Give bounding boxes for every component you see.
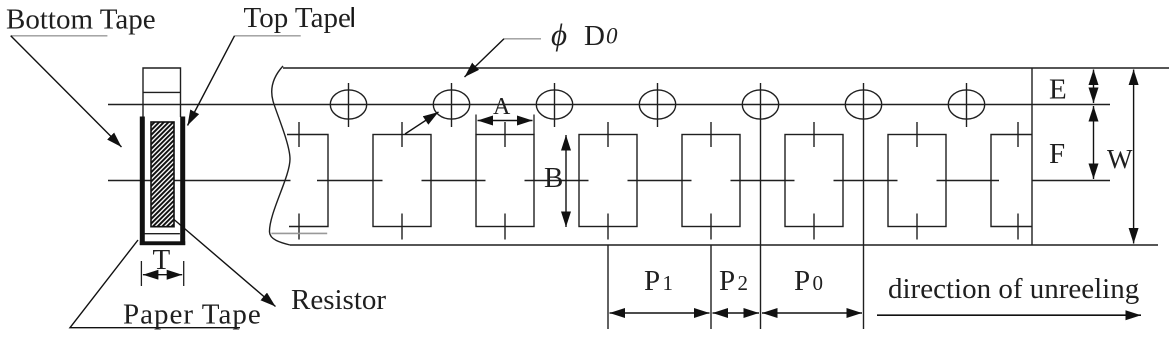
sprocket hole 4	[639, 83, 675, 127]
dimension W arrow	[1133, 70, 1135, 244]
pocket 5	[682, 122, 740, 240]
label P2	[719, 265, 748, 297]
wire sprocket center line	[108, 104, 1110, 106]
wire component center line segments	[108, 180, 1110, 182]
sprocket hole 1	[330, 83, 366, 127]
leader phi D0 tail (gray)	[504, 38, 541, 40]
svg-text:B: B	[544, 162, 563, 194]
pocket 3	[476, 122, 534, 240]
pocket 8 (clipped by tape right edge)	[991, 122, 1032, 240]
dimension A extension lines	[476, 115, 534, 135]
wire tape left wavy break edge	[269, 66, 290, 245]
pocket 4	[579, 122, 637, 240]
svg-text:1: 1	[663, 271, 674, 295]
component pockets	[287, 122, 1032, 240]
pocket 6	[785, 122, 843, 240]
P1/P2 pocket-center extension lines below tape	[608, 245, 711, 329]
svg-text:F: F	[1049, 138, 1065, 170]
leader Bottom Tape arrow	[11, 36, 122, 147]
paper tape inner bottom line	[144, 233, 180, 235]
resistor hatched body	[151, 122, 174, 227]
sprocket hole 3	[536, 83, 572, 127]
dimension P2 arrow	[713, 312, 760, 314]
leader Top Tape underline (gray)	[235, 35, 301, 37]
dimension B arrow	[565, 135, 567, 227]
svg-text:A: A	[493, 94, 511, 120]
dimension P1 arrow	[610, 312, 710, 314]
top tape right bar	[180, 117, 185, 246]
bottom tape bottom bar	[140, 241, 185, 245]
node P1 right / P2 left extension	[710, 245, 712, 329]
label P0	[794, 265, 823, 297]
svg-text:Resistor: Resistor	[291, 284, 386, 316]
svg-text:D: D	[584, 20, 605, 52]
dimension T arrow	[143, 274, 182, 276]
pocket 2	[373, 122, 431, 240]
sprocket holes	[330, 83, 984, 329]
svg-text:P: P	[719, 265, 735, 297]
side view (cross section)	[140, 68, 185, 245]
svg-text:Paper Tape: Paper Tape	[123, 299, 262, 331]
pocket 1 (clipped by break)	[287, 122, 328, 240]
label P1	[644, 265, 673, 297]
svg-text:Bottom Tape: Bottom Tape	[6, 4, 156, 36]
svg-text:direction of unreeling: direction of unreeling	[888, 273, 1139, 305]
leader Resistor arrow	[173, 219, 275, 307]
sprocket hole 7	[948, 83, 984, 127]
leader Top Tape arrow	[188, 36, 235, 126]
svg-text:P: P	[644, 265, 660, 297]
label phi D0	[551, 17, 618, 52]
pocket 7	[888, 122, 946, 240]
svg-text:2: 2	[738, 271, 749, 295]
svg-text:E: E	[1049, 74, 1067, 106]
leader phi D0 arrow	[465, 39, 505, 77]
dimension P0 arrow	[762, 312, 862, 314]
svg-text:W: W	[1107, 144, 1133, 174]
small arrow pointing at sprocket hole	[405, 112, 439, 134]
leader Paper Tape	[70, 240, 240, 328]
dimension T extension lines	[141, 261, 183, 286]
svg-text:0: 0	[606, 24, 618, 49]
sprocket hole 2	[433, 83, 469, 127]
svg-text:0: 0	[813, 271, 824, 295]
svg-text:T: T	[153, 244, 171, 276]
sprocket hole 6 with P0 extension line	[845, 83, 881, 329]
text cursor artifact after Top Tape	[352, 7, 354, 27]
dimension A arrow	[478, 120, 533, 122]
dimension F arrow	[1093, 106, 1095, 179]
leader Bottom Tape underline (gray)	[11, 35, 108, 37]
top tape upper outline	[143, 68, 181, 117]
bottom tape left bar	[140, 117, 145, 246]
wire tape right edge	[1031, 68, 1033, 245]
node P1 left extension	[607, 245, 609, 329]
svg-text:P: P	[794, 265, 810, 297]
wire tape top edge with right extension	[283, 67, 1169, 69]
svg-text:ϕ: ϕ	[551, 17, 567, 52]
direction of unreeling arrow	[877, 314, 1141, 316]
sprocket hole 5 with P0 extension line	[742, 83, 778, 329]
wire tape bottom edge with right extension	[290, 244, 1158, 246]
svg-text:Top Tape: Top Tape	[244, 2, 351, 34]
stray gray line at tape break	[271, 232, 327, 234]
dimension E arrow	[1093, 70, 1095, 104]
